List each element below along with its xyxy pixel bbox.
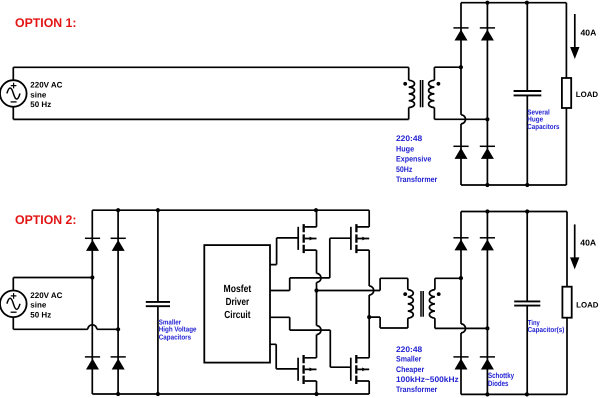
svg-text:220:48: 220:48 bbox=[396, 345, 423, 354]
svg-text:Capacitors: Capacitors bbox=[159, 333, 191, 342]
node junction DC- bus at M3 source bbox=[314, 392, 318, 396]
AC source V2 bbox=[0, 278, 27, 330]
wire to primary bottom bbox=[369, 317, 408, 328]
node junction top bus at C1 bbox=[525, 1, 529, 5]
node junction DC+ bus at M1 drain bbox=[314, 208, 318, 212]
svg-text:OPTION 1:: OPTION 1: bbox=[15, 16, 77, 30]
diode D8 bbox=[111, 357, 126, 370]
bridge2 right rail bbox=[117, 210, 119, 394]
transformer T2 bbox=[403, 278, 440, 328]
node junction half-bridge A to T2 primary top bbox=[314, 288, 318, 292]
diode D3 bbox=[453, 146, 468, 159]
svg-text:LOAD: LOAD bbox=[576, 301, 599, 310]
node junction half-bridge B to T2 primary bottom bbox=[367, 315, 371, 319]
current arrow 40A option2 bbox=[570, 224, 579, 269]
capacitor C3 tiny bbox=[514, 212, 540, 395]
T2 label bbox=[396, 345, 459, 394]
C2 label bbox=[159, 318, 197, 342]
wire bottom option2 right bus bbox=[461, 393, 567, 395]
half-bridge right vertical with hop bbox=[368, 250, 370, 286]
svg-text:sine: sine bbox=[30, 90, 47, 99]
svg-text:Transformer: Transformer bbox=[396, 385, 437, 394]
svg-text:LOAD: LOAD bbox=[576, 90, 599, 99]
node junction output- bus at D12 bbox=[485, 392, 489, 396]
svg-text:50 Hz: 50 Hz bbox=[30, 100, 51, 109]
mosfet M3 bbox=[298, 355, 316, 394]
U1 label bbox=[224, 284, 252, 321]
wire AC2 top bbox=[13, 277, 92, 279]
node junction T2 secondary bottom to bridge3 bbox=[485, 326, 489, 330]
wire to primary top bbox=[317, 278, 408, 290]
half-bridge left vertical with hops bbox=[316, 250, 318, 273]
svg-text:Transformer: Transformer bbox=[396, 175, 437, 184]
diode D4 bbox=[480, 146, 495, 159]
node junction secondary top to bridge1 bbox=[459, 65, 463, 69]
wire secondary bottom T2 bbox=[435, 327, 488, 329]
svg-text:Cheaper: Cheaper bbox=[396, 365, 424, 374]
svg-text:Driver: Driver bbox=[226, 297, 250, 308]
current arrow 40A option1 bbox=[570, 14, 579, 59]
wire top option1 bbox=[13, 66, 408, 68]
node junction output+ bus at C3 bbox=[525, 209, 529, 213]
node junction bottom bus at C1 bbox=[525, 183, 529, 187]
bridge2 left rail bbox=[91, 210, 93, 394]
schottky diode D9 bbox=[453, 238, 468, 251]
node junction DC- bus at bridge2 bbox=[116, 392, 120, 396]
load R2 bbox=[562, 212, 571, 395]
diode D7 bbox=[85, 357, 100, 370]
svg-text:Capacitors: Capacitors bbox=[527, 122, 559, 131]
gate wire stub1 to M1 bbox=[270, 238, 298, 265]
node junction output+ bus at D10 bbox=[485, 209, 489, 213]
svg-text:Expensive: Expensive bbox=[396, 155, 432, 164]
svg-text:40A: 40A bbox=[580, 237, 596, 247]
node junction DC+ bus at D6 bbox=[116, 208, 120, 212]
diode D5 bbox=[85, 238, 100, 251]
node junction bottom bus at D4 anode bbox=[485, 183, 489, 187]
diode D6 bbox=[111, 238, 126, 251]
mosfet M4 bbox=[351, 355, 369, 394]
node junction output- bus at C3 bbox=[525, 392, 529, 396]
T1 label bbox=[396, 134, 437, 184]
transformer T1 bbox=[403, 67, 440, 119]
node junction DC- bus at C2 bbox=[156, 392, 160, 396]
svg-text:220V AC: 220V AC bbox=[30, 81, 62, 90]
diode D2 bbox=[480, 28, 495, 41]
diode D1 bbox=[453, 28, 468, 41]
load R1 bbox=[562, 3, 571, 185]
schottky diode D12 bbox=[480, 357, 495, 370]
schottky diode D10 bbox=[480, 238, 495, 251]
wire AC2 bottom with hop over left rail bbox=[13, 328, 88, 330]
node junction AC2 live to bridge2 bbox=[90, 275, 94, 279]
svg-text:50 Hz: 50 Hz bbox=[30, 311, 51, 320]
svg-text:Diodes: Diodes bbox=[488, 379, 509, 388]
svg-text:40A: 40A bbox=[581, 28, 597, 38]
wire bottom option2 bus bbox=[92, 393, 369, 395]
svg-text:Circuit: Circuit bbox=[224, 310, 251, 321]
wire bottom option1 bbox=[13, 118, 408, 120]
AC source V1 bbox=[0, 67, 27, 119]
svg-text:OPTION 2:: OPTION 2: bbox=[15, 213, 77, 227]
svg-text:Huge: Huge bbox=[396, 144, 415, 153]
bridge3 right rail bbox=[486, 212, 488, 395]
node junction top bus at D2 cathode bbox=[485, 1, 489, 5]
capacitor C1 bbox=[514, 3, 542, 185]
gate wire stub4 to M3 bbox=[270, 344, 298, 369]
V1 label 220V AC sine 50 Hz bbox=[30, 81, 62, 110]
schottky label bbox=[488, 371, 515, 388]
schottky diode D11 bbox=[453, 357, 468, 370]
bridge1 right rail bbox=[486, 3, 488, 185]
svg-text:Smaller: Smaller bbox=[396, 355, 421, 364]
svg-text:Mosfet: Mosfet bbox=[224, 284, 252, 295]
gate wire stub2 to M2 bbox=[270, 238, 351, 290]
node junction secondary bottom to bridge1 bbox=[485, 117, 489, 121]
wire secondary bottom T1 bbox=[434, 118, 487, 120]
mosfet driver box U1 bbox=[204, 245, 270, 363]
svg-text:220V AC: 220V AC bbox=[30, 291, 62, 300]
wire top option1 bus bbox=[461, 2, 566, 4]
node junction T2 secondary top to bridge3 bbox=[459, 276, 463, 280]
bridge3 left rail with hop bbox=[460, 212, 462, 324]
mosfet M1 bbox=[298, 210, 316, 253]
svg-text:Capacitor(s): Capacitor(s) bbox=[528, 325, 565, 334]
svg-text:sine: sine bbox=[30, 301, 47, 310]
bridge1 left rail with hop bbox=[460, 3, 462, 115]
mosfet M2 bbox=[351, 210, 369, 253]
gate wire stub3 to M4 bbox=[270, 317, 351, 367]
wire secondary top T2 bbox=[435, 277, 461, 279]
svg-text:220:48: 220:48 bbox=[396, 134, 423, 143]
wire top option2 right bus bbox=[461, 211, 567, 213]
C3 label bbox=[528, 318, 565, 334]
wire secondary top T1 bbox=[434, 66, 461, 68]
capacitor C2 smaller HV bbox=[146, 210, 170, 394]
node junction DC+ bus at C2 bbox=[156, 208, 160, 212]
V2 label 220V AC sine 50 Hz bbox=[30, 291, 62, 320]
svg-text:50Hz: 50Hz bbox=[396, 165, 412, 174]
wire bottom option1 bus bbox=[461, 184, 566, 186]
wire top option2 bus bbox=[92, 209, 369, 211]
node junction AC2 neutral to bridge2 bbox=[116, 327, 120, 331]
C1 label bbox=[527, 107, 559, 131]
svg-text:100kHz~500kHz: 100kHz~500kHz bbox=[396, 375, 459, 384]
